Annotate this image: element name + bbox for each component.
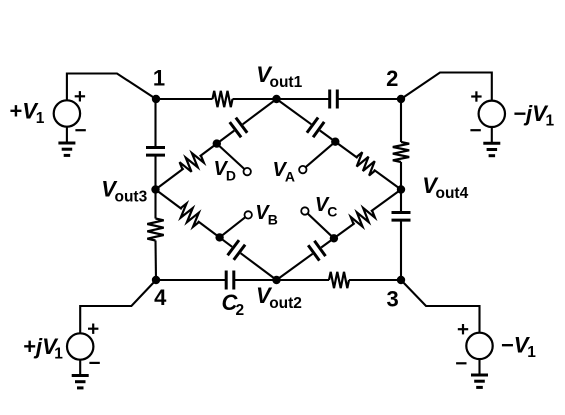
wire Vout4 to C-right <box>400 190 402 213</box>
svg-text:A: A <box>285 168 295 184</box>
source +V1 circle <box>54 100 80 126</box>
wire VA probe stub <box>306 142 336 168</box>
svg-text:out1: out1 <box>270 74 303 91</box>
wire C-left to Vout3 <box>154 155 156 189</box>
wire +V1 connection <box>67 74 156 101</box>
svg-text:+: + <box>23 334 36 359</box>
label VD <box>214 158 237 184</box>
resistor R (Vout1-Vout4) <box>356 152 375 175</box>
svg-text:D: D <box>226 167 236 183</box>
resistor R (Vout2-node3) <box>329 272 349 288</box>
svg-text:out4: out4 <box>436 185 469 202</box>
ground under +V1 <box>58 143 75 155</box>
wire on Vout3-Vout2 <box>198 221 232 247</box>
capacitor C2 (node4-Vout2) <box>226 271 234 290</box>
resistor R (Vout4-Vout2) <box>351 208 375 227</box>
capacitor C (Vout1-Vout4) <box>307 118 324 138</box>
source -jV1 plus sign <box>471 91 481 101</box>
svg-text:+: + <box>10 98 23 123</box>
svg-text:3: 3 <box>386 287 398 312</box>
terminal VA open circle <box>299 166 306 173</box>
label +jV1 <box>23 334 63 363</box>
wire Vout1 to C-top-right <box>277 98 330 100</box>
node 1 junction dot <box>152 95 160 103</box>
svg-text:1: 1 <box>36 110 45 127</box>
svg-text:1: 1 <box>546 113 555 130</box>
resistor R (node2-Vout4) <box>393 142 409 162</box>
wire on Vout3-Vout2 <box>156 190 182 210</box>
label Vout1 <box>256 62 302 91</box>
capacitor C (Vout4-node3) <box>392 213 411 221</box>
source +V1 minus sign <box>75 129 85 131</box>
svg-text:1: 1 <box>54 346 63 363</box>
capacitor C (Vout1-node2) <box>330 90 338 109</box>
source -jV1 circle <box>479 101 505 127</box>
label Vout3 <box>101 177 147 206</box>
label +V1 <box>10 98 45 127</box>
wire on Vout4-Vout2 <box>277 254 313 280</box>
capacitor C (Vout3-Vout2) <box>228 240 246 260</box>
wire -jV1 to ground <box>491 127 493 143</box>
ground under -jV1 <box>483 143 500 155</box>
label VA <box>273 159 296 185</box>
source +V1 plus sign <box>75 91 85 101</box>
svg-text:out3: out3 <box>115 188 148 205</box>
wire -jV1 connection <box>401 73 492 101</box>
source +jV1 minus sign <box>89 362 99 364</box>
node label 3 <box>386 287 398 312</box>
wire C-top-right to node2 <box>337 98 401 100</box>
wire on Vout3-Vout2 <box>241 253 277 280</box>
node Vout4 junction dot <box>397 185 405 193</box>
svg-text:4: 4 <box>154 285 167 310</box>
source +jV1 circle <box>67 333 93 359</box>
node 2 junction dot <box>397 95 405 103</box>
label -jV1 <box>514 101 555 130</box>
node VC-tap junction dot <box>330 234 338 242</box>
wire VC probe stub <box>308 214 334 239</box>
resistor R (Vout3-node4) <box>147 219 163 241</box>
wire R-right to Vout4 <box>400 162 402 190</box>
svg-text:out2: out2 <box>269 295 302 312</box>
wire node2 to R-right <box>400 99 402 142</box>
wire node1 to C-left <box>154 99 156 148</box>
svg-text:2: 2 <box>386 66 398 91</box>
terminal VB open circle <box>245 211 252 218</box>
resistor R (Vout1-Vout3) <box>180 153 204 172</box>
wire Vout3 to R-left <box>154 190 156 219</box>
wire +jV1 to ground <box>79 360 81 376</box>
wire R-top-left to Vout1 <box>233 98 277 100</box>
capacitor C (node1-Vout3) <box>146 148 165 156</box>
wire -V1 connection <box>401 280 480 333</box>
source +jV1 plus sign <box>88 324 98 334</box>
ground under -V1 <box>471 375 488 387</box>
label Vout4 <box>422 173 468 202</box>
wire VB probe stub <box>220 217 246 237</box>
label VC <box>315 194 338 220</box>
wire node4 to C2 <box>156 279 226 281</box>
node Vout1 junction dot <box>272 95 280 103</box>
wire +V1 to ground <box>66 127 68 143</box>
label Vout2 <box>256 283 302 312</box>
label VB <box>255 202 278 228</box>
wire R-left to node4 <box>154 241 157 281</box>
wire VD probe stub <box>217 144 245 170</box>
node Vout3 junction dot <box>151 185 159 193</box>
svg-text:1: 1 <box>153 66 165 91</box>
wire on Vout1-Vout3 <box>156 168 184 189</box>
svg-text:1: 1 <box>527 344 536 361</box>
wire R-bottom to node3 <box>349 279 401 281</box>
wire on Vout1-Vout4 <box>277 99 312 124</box>
source -jV1 minus sign <box>470 129 480 131</box>
node label 1 <box>153 66 165 91</box>
node VA-tap junction dot <box>331 138 339 146</box>
ground under +jV1 <box>72 376 89 388</box>
resistor R (Vout3-Vout2) <box>181 204 199 227</box>
terminal VC open circle <box>301 207 308 214</box>
node VB-tap junction dot <box>215 233 223 241</box>
wire on Vout1-Vout4 <box>320 131 358 159</box>
capacitor C (Vout1-Vout3) <box>230 118 248 138</box>
wire Vout2 to R-bottom <box>277 279 330 281</box>
node 4 junction dot <box>152 276 160 284</box>
label -V1 <box>501 332 536 361</box>
svg-text:B: B <box>268 212 278 228</box>
node label 2 <box>386 66 398 91</box>
source -V1 minus sign <box>456 362 466 364</box>
wire -V1 to ground <box>478 359 480 375</box>
node 3 junction dot <box>397 276 405 284</box>
svg-text:2: 2 <box>236 302 245 319</box>
wire +jV1 connection <box>80 280 156 333</box>
wire node1 to R-top-left <box>156 98 213 100</box>
wire on Vout1-Vout4 <box>374 170 401 190</box>
node Vout2 junction dot <box>272 276 280 284</box>
wire C-right to node3 <box>400 220 402 280</box>
wire on Vout1-Vout3 <box>243 99 277 124</box>
wire on Vout4-Vout2 <box>321 223 355 247</box>
capacitor C (Vout4-Vout2) <box>308 241 325 261</box>
node label 4 <box>154 285 167 310</box>
node VD-tap junction dot <box>213 139 221 147</box>
svg-text:−: − <box>501 332 514 357</box>
source -V1 plus sign <box>458 324 468 334</box>
label C2 <box>222 290 245 319</box>
wire C2 to Vout2 <box>234 279 277 281</box>
resistor R (node1-Vout1) <box>213 91 233 107</box>
wire on Vout1-Vout3 <box>200 131 235 157</box>
svg-text:C: C <box>327 204 337 220</box>
svg-text:−: − <box>514 101 527 126</box>
terminal VD open circle <box>244 168 251 175</box>
source -V1 circle <box>466 333 492 359</box>
wire on Vout4-Vout2 <box>371 190 401 212</box>
